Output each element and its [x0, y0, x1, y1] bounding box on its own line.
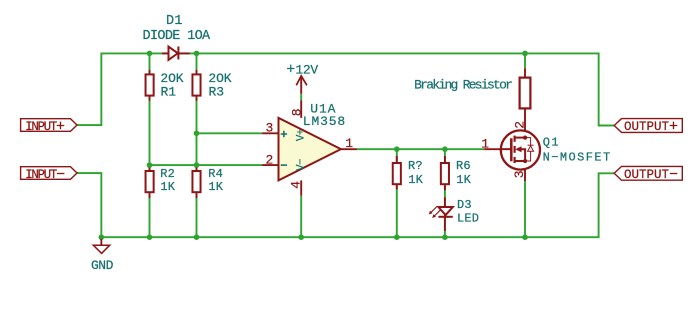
svg-text:R2: R2 [160, 167, 175, 181]
svg-text:D1: D1 [166, 14, 183, 29]
svg-text:1K: 1K [208, 180, 223, 194]
svg-text:1: 1 [345, 136, 353, 151]
svg-text:LM358: LM358 [303, 114, 346, 129]
svg-text:V+: V+ [296, 129, 308, 141]
svg-text:OUTPUT−: OUTPUT− [624, 167, 678, 184]
svg-text:2: 2 [512, 121, 527, 129]
svg-text:V−: V− [296, 159, 308, 171]
svg-text:1K: 1K [160, 180, 175, 194]
svg-text:3: 3 [266, 121, 274, 136]
svg-text:INPUT−: INPUT− [25, 166, 65, 183]
svg-text:OUTPUT+: OUTPUT+ [624, 119, 678, 136]
svg-text:D3: D3 [457, 198, 472, 212]
svg-text:Braking Resistor: Braking Resistor [414, 77, 512, 92]
svg-text:R1: R1 [161, 84, 177, 99]
svg-text:INPUT+: INPUT+ [25, 118, 65, 135]
svg-text:GND: GND [91, 258, 114, 273]
svg-text:2: 2 [266, 153, 274, 168]
svg-text:LED: LED [457, 211, 479, 225]
svg-text:+12V: +12V [286, 61, 318, 78]
svg-text:R?: R? [408, 159, 423, 173]
svg-text:1K: 1K [408, 173, 423, 187]
svg-text:R3: R3 [209, 84, 224, 99]
svg-text:N−MOSFET: N−MOSFET [543, 150, 612, 164]
svg-text:R4: R4 [208, 167, 223, 181]
svg-text:8: 8 [290, 108, 305, 116]
svg-text:R6: R6 [456, 159, 471, 173]
svg-text:3: 3 [512, 170, 527, 178]
svg-text:Q1: Q1 [543, 135, 560, 149]
svg-text:1: 1 [481, 136, 489, 151]
svg-text:1K: 1K [456, 173, 471, 187]
svg-text:DIODE 1OA: DIODE 1OA [143, 29, 212, 44]
svg-text:4: 4 [288, 181, 303, 189]
